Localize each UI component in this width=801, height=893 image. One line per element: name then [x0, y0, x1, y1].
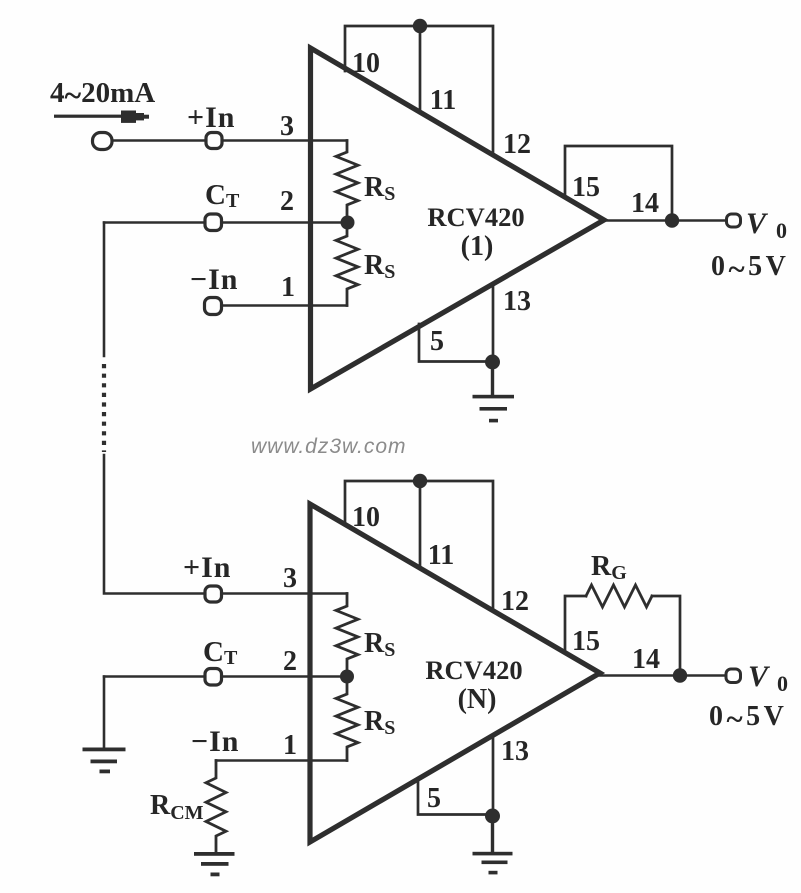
svg-text:0: 0 [777, 671, 788, 696]
svg-text:RCV420: RCV420 [425, 655, 522, 685]
wire CT(1) down solid segment [103, 223, 106, 357]
junction dot output (1) [665, 213, 679, 227]
feedback strap pin15-pin14 (1) [565, 146, 672, 220]
svg-text:0~5V: 0~5V [709, 701, 787, 736]
resistor RCM [206, 761, 226, 854]
terminal +In (N) [205, 586, 222, 602]
current direction arrow [54, 111, 149, 123]
wire pin 11 (N) [419, 481, 422, 568]
wire RG to pin14 junction [652, 596, 680, 675]
terminal CT (N) [205, 669, 222, 686]
svg-text:1: 1 [281, 272, 295, 303]
resistor RG [586, 585, 652, 607]
terminal CT (1) [205, 214, 222, 231]
svg-text:14: 14 [632, 644, 660, 675]
input terminal [93, 133, 113, 150]
svg-text:(N): (N) [458, 684, 497, 715]
wire pin 13 (N) [492, 738, 495, 816]
svg-text:0~5V: 0~5V [711, 251, 789, 286]
svg-text:+In: +In [187, 101, 235, 134]
svg-text:4~20mA: 4~20mA [50, 77, 155, 113]
wire pin 5 (1) [419, 324, 492, 362]
svg-text:10: 10 [352, 48, 380, 79]
terminal +In (1) [206, 133, 222, 149]
terminal V0 (N) [726, 669, 741, 683]
op-amp U2 RCV420(N) triangle [310, 504, 600, 842]
svg-text:11: 11 [428, 540, 454, 571]
ground RCM [194, 852, 235, 876]
svg-text:2: 2 [280, 186, 294, 217]
ground (1) [473, 362, 515, 422]
svg-text:13: 13 [501, 736, 529, 767]
wire pin 5 (N) [418, 781, 492, 815]
svg-text:CT: CT [203, 636, 238, 669]
terminal -In (1) [205, 298, 222, 315]
svg-text:0: 0 [776, 218, 787, 243]
wire pin10-pin12 top strap (1) [345, 26, 493, 154]
svg-text:12: 12 [503, 129, 531, 160]
svg-text:5: 5 [427, 783, 441, 814]
wire CT to pin 2 (1) [104, 221, 348, 223]
svg-text:2: 2 [283, 646, 297, 677]
resistor RS lower (N) [336, 677, 358, 761]
svg-text:+In: +In [183, 551, 231, 584]
svg-text:−In: −In [190, 263, 238, 296]
svg-text:3: 3 [280, 111, 294, 142]
svg-text:13: 13 [503, 286, 531, 317]
feedback strap with RG (N) [565, 596, 586, 652]
op-amp U1 RCV420(1) triangle [311, 48, 605, 389]
svg-text:15: 15 [572, 626, 600, 657]
wire pin 13 (1) [492, 285, 495, 362]
junction dot RS midpoint (1) [341, 216, 355, 230]
wire dotted interconnect [102, 364, 106, 452]
svg-text:RS: RS [364, 250, 395, 283]
wire CT to pin 2 (N) [104, 675, 347, 677]
resistor RS lower (1) [336, 223, 358, 306]
svg-text:3: 3 [283, 563, 297, 594]
svg-text:RCV420: RCV420 [427, 202, 524, 232]
junction dot ground (1) [485, 355, 500, 370]
wire pin10-pin12 top strap (N) [345, 481, 493, 609]
svg-text:15: 15 [572, 172, 600, 203]
svg-text:RCM: RCM [150, 790, 204, 824]
junction dot pin11 strap (1) [413, 19, 427, 33]
ground left (N) [83, 748, 126, 774]
svg-text:RG: RG [591, 551, 627, 584]
junction dot output (N) [673, 668, 687, 682]
resistor RS upper (1) [336, 141, 358, 223]
svg-text:V: V [746, 207, 769, 240]
wire down to +In (N) [104, 455, 347, 594]
wire -In to pin 1 (1) [213, 304, 347, 306]
svg-text:11: 11 [430, 85, 456, 116]
svg-text:14: 14 [631, 188, 659, 219]
svg-text:(1): (1) [461, 231, 494, 262]
wire -In to pin 1 (N) [216, 759, 347, 761]
svg-text:www.dz3w.com: www.dz3w.com [251, 435, 407, 458]
svg-text:−In: −In [191, 725, 239, 758]
wire output pin 14 (1) [604, 219, 727, 221]
svg-text:RS: RS [364, 706, 395, 739]
wire pin 11 (1) [419, 26, 422, 113]
svg-text:RS: RS [364, 172, 395, 205]
junction dot RS midpoint (N) [340, 670, 354, 684]
svg-text:5: 5 [430, 326, 444, 357]
svg-text:1: 1 [283, 730, 297, 761]
ground (N) [473, 816, 513, 874]
terminal V0 (1) [727, 214, 741, 227]
junction dot ground (N) [485, 809, 500, 824]
svg-text:CT: CT [205, 179, 240, 212]
wire output pin 14 (N) [600, 674, 726, 676]
svg-text:V: V [748, 660, 771, 693]
svg-text:10: 10 [352, 502, 380, 533]
wire input to pin 3 [112, 139, 347, 141]
wire CT (N) to ground [103, 677, 106, 749]
resistor RS upper (N) [336, 594, 358, 677]
svg-text:RS: RS [364, 628, 395, 661]
junction dot pin11 strap (N) [413, 474, 427, 488]
svg-text:12: 12 [501, 586, 529, 617]
